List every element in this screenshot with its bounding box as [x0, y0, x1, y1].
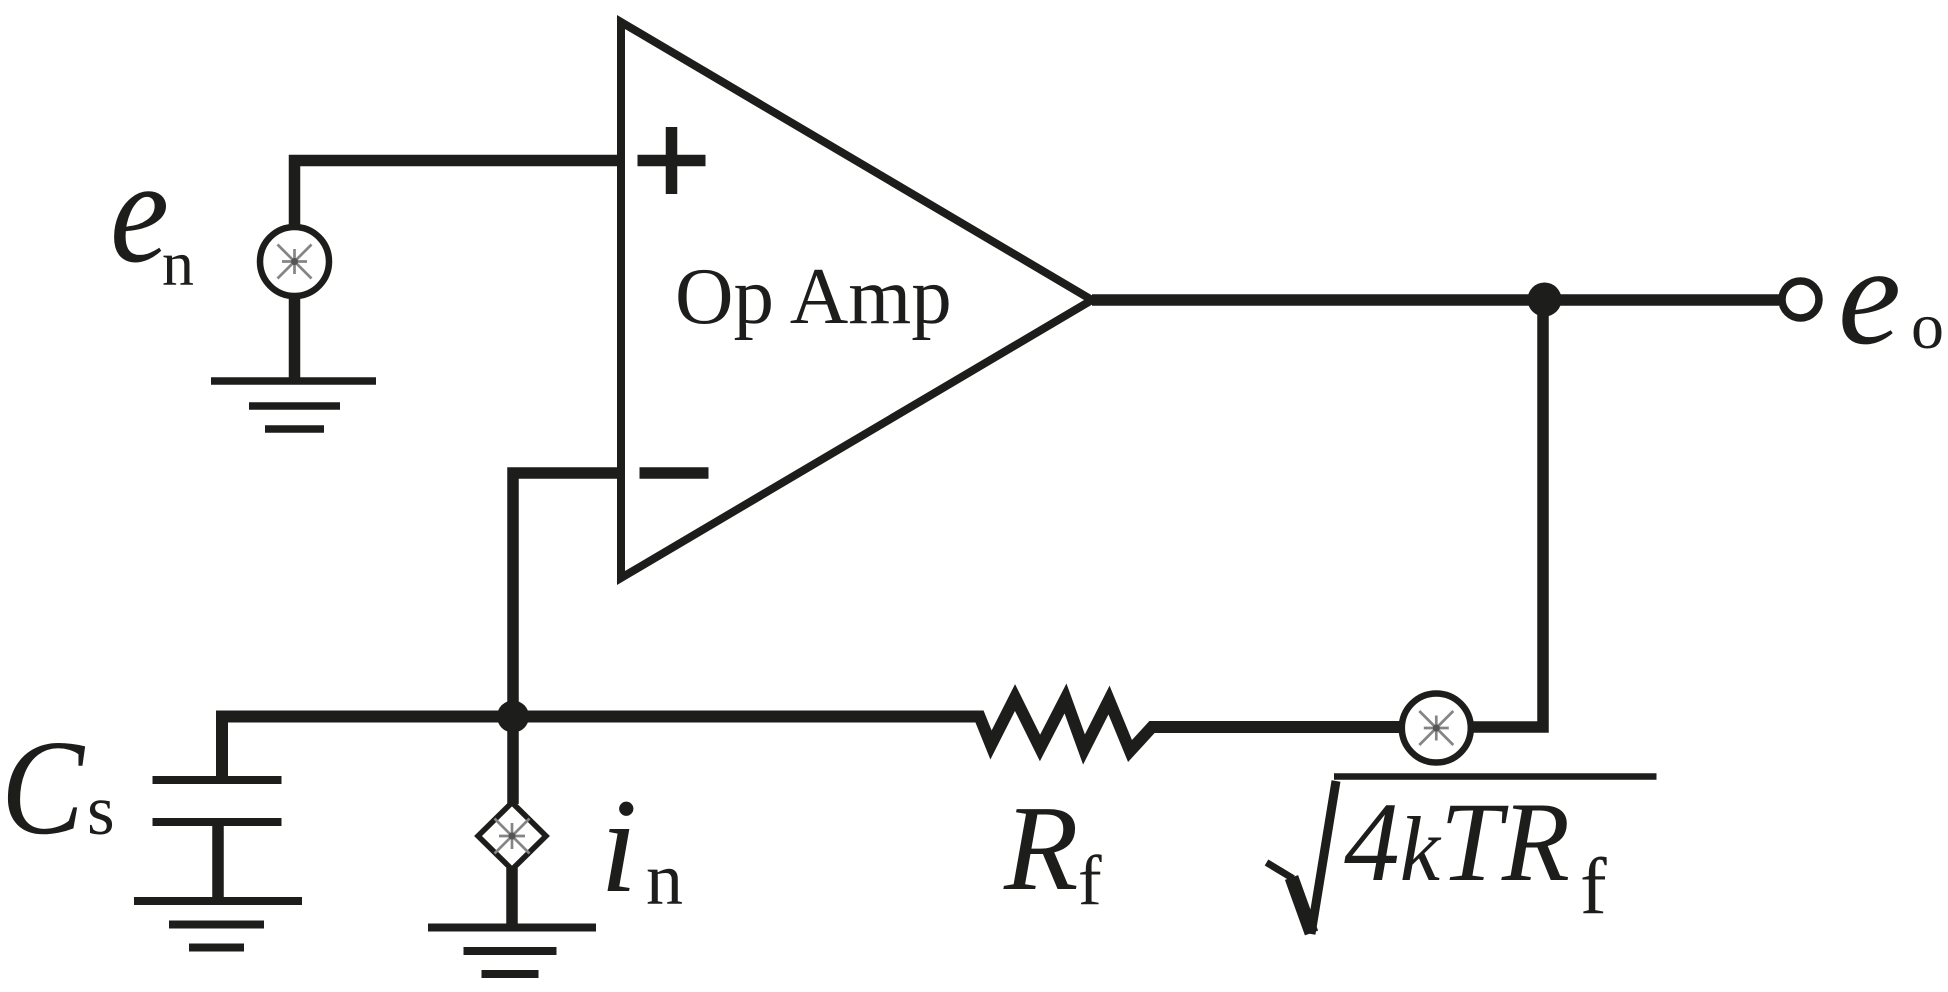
label e_n [110, 130, 194, 299]
svg-text:i: i [600, 772, 638, 921]
op-amp minus input marker [640, 467, 709, 479]
node A junction dot [497, 701, 529, 733]
wire: op-amp output to terminal e_o [1092, 294, 1779, 306]
thermal noise source of Rf (circle) [1402, 694, 1471, 763]
capacitor Cs [153, 780, 282, 897]
wire: summing node run (Cs elbow, node A, to resistor Rf) with resistor zigzag [222, 698, 1402, 780]
op-amp U1 triangle [621, 22, 1092, 578]
svg-text:f: f [1580, 843, 1607, 931]
wire: node A to current noise source i_n [507, 716, 519, 804]
wire: e_n source to ground [289, 296, 301, 381]
wire: e_n source to non-inverting input [295, 161, 621, 227]
ground under i_n [428, 928, 596, 975]
wire: noise source to output node (feedback riser) [1471, 300, 1543, 727]
ground under Cs [134, 901, 302, 948]
voltage noise source e_n [260, 227, 329, 296]
svg-text:n: n [162, 228, 194, 299]
output terminal e_o (open circle) [1782, 281, 1819, 318]
svg-text:s: s [87, 772, 115, 850]
svg-text:Op Amp: Op Amp [675, 251, 952, 341]
output node junction dot [1528, 283, 1562, 317]
svg-text:4kTR: 4kTR [1344, 780, 1570, 905]
current noise source i_n (diamond) [478, 803, 546, 870]
svg-text:f: f [1078, 842, 1102, 920]
svg-text:C: C [1, 713, 85, 863]
ground under e_n [211, 381, 376, 429]
svg-text:n: n [646, 839, 683, 921]
wire: inverting input to node A [513, 473, 620, 716]
label e_o [1838, 216, 1944, 374]
label i_n [600, 772, 683, 921]
svg-text:e: e [110, 130, 169, 294]
op-amp plus input marker [638, 127, 706, 194]
label R_f [1003, 781, 1102, 920]
wire: i_n source to ground [506, 868, 518, 928]
svg-text:o: o [1911, 290, 1944, 363]
label C_s [1, 713, 115, 863]
svg-text:e: e [1838, 216, 1901, 374]
label sqrt(4kTR_f) [1267, 777, 1657, 935]
svg-text:R: R [1003, 781, 1079, 916]
